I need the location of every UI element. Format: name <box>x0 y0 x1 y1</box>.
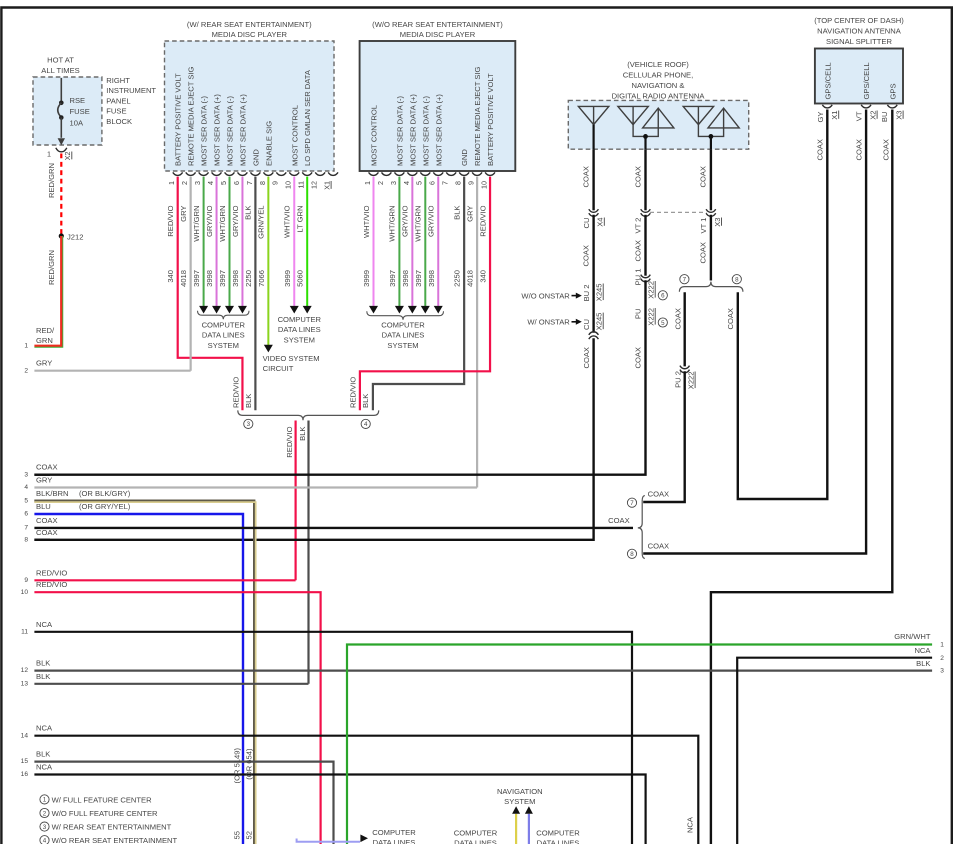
svg-text:(W/ REAR SEAT ENTERTAINMENT): (W/ REAR SEAT ENTERTAINMENT) <box>187 20 312 29</box>
svg-text:COAX: COAX <box>36 528 58 537</box>
svg-text:5060: 5060 <box>296 270 305 287</box>
svg-text:9: 9 <box>24 577 28 584</box>
svg-text:NAVIGATION ANTENNA: NAVIGATION ANTENNA <box>817 26 902 35</box>
svg-text:DIGITAL RADIO ANTENNA: DIGITAL RADIO ANTENNA <box>612 91 706 100</box>
svg-text:(OR BLK/GRY): (OR BLK/GRY) <box>79 489 131 498</box>
brace coax split (7)(8) <box>638 496 645 559</box>
left wire 5 BLK/BRN <box>34 500 40 503</box>
svg-text:X4: X4 <box>596 218 605 227</box>
svg-text:X245: X245 <box>595 284 604 302</box>
coax 3 upper segment <box>710 149 712 210</box>
svg-text:7: 7 <box>630 500 634 507</box>
media disc player (W/ RSE) box <box>165 41 335 171</box>
brace splice options (3)(4) <box>238 410 379 420</box>
option circle 8 coax side <box>627 549 636 558</box>
fuse feed wire <box>60 78 62 102</box>
svg-text:9: 9 <box>467 181 476 185</box>
svg-text:GPS/CELL: GPS/CELL <box>823 62 832 99</box>
option circle 7 antenna side <box>680 275 689 284</box>
wire box2 pin9 GRY joins left wire 4 <box>476 177 478 488</box>
svg-text:MOST SER DATA (-): MOST SER DATA (-) <box>226 95 235 166</box>
svg-text:16: 16 <box>21 771 29 778</box>
svg-text:W/ FULL FEATURE CENTER: W/ FULL FEATURE CENTER <box>52 795 153 804</box>
connector VT 1 X3 <box>706 209 716 212</box>
svg-text:RED/: RED/ <box>36 326 55 335</box>
svg-text:11: 11 <box>297 181 306 188</box>
navigation system wire VIO <box>528 814 530 844</box>
svg-text:6: 6 <box>428 181 437 185</box>
branch 7 coax lower to brace <box>643 371 685 502</box>
svg-text:GRY: GRY <box>465 206 474 222</box>
wires box1 pins 10-11 to computer data lines <box>293 177 295 308</box>
svg-text:MEDIA DISC PLAYER: MEDIA DISC PLAYER <box>212 30 288 39</box>
svg-text:COMPUTER: COMPUTER <box>278 315 322 324</box>
svg-text:RED/VIO: RED/VIO <box>285 426 294 457</box>
antenna 1 stem <box>592 125 594 150</box>
connector PU 2 X222 <box>680 366 690 369</box>
svg-text:W/ ONSTAR: W/ ONSTAR <box>527 317 570 326</box>
legend option 2 <box>40 808 49 817</box>
svg-text:MOST CONTROL: MOST CONTROL <box>290 105 299 166</box>
svg-text:BLK: BLK <box>298 427 307 441</box>
svg-text:BLU: BLU <box>36 502 51 511</box>
svg-text:3: 3 <box>940 667 944 674</box>
svg-text:GRY: GRY <box>179 206 188 222</box>
svg-text:COAX: COAX <box>582 166 591 188</box>
right instrument panel fuse block box <box>33 77 102 145</box>
wire box2 pin10 RED/VIO to splice pair (4) <box>360 177 490 411</box>
left wire 3 COAX <box>34 474 50 476</box>
svg-text:X3: X3 <box>895 111 904 120</box>
svg-text:GRY: GRY <box>36 476 52 485</box>
svg-text:PU 1: PU 1 <box>634 269 643 286</box>
bottom lavender data wire with arrow <box>297 839 360 842</box>
svg-text:10: 10 <box>284 181 293 189</box>
svg-text:1: 1 <box>940 642 944 649</box>
svg-text:COMPUTER: COMPUTER <box>381 321 425 330</box>
svg-text:COAX: COAX <box>726 308 735 330</box>
splitter X2 wire to brace branch 8 <box>643 110 866 554</box>
svg-text:3997: 3997 <box>388 270 397 287</box>
navigation system wire YEL <box>515 814 517 844</box>
svg-text:GRY/VIO: GRY/VIO <box>205 205 214 237</box>
svg-text:52: 52 <box>244 831 253 839</box>
svg-text:6: 6 <box>661 293 665 300</box>
brace computer data lines group 1 <box>198 311 250 320</box>
svg-text:COMPUTER: COMPUTER <box>202 321 246 330</box>
svg-text:4018: 4018 <box>466 270 475 287</box>
option circle 7 coax side <box>627 498 636 507</box>
svg-text:VT: VT <box>855 111 864 121</box>
svg-text:MOST CONTROL: MOST CONTROL <box>370 105 379 166</box>
antenna 2 stem <box>644 136 646 149</box>
svg-text:2: 2 <box>43 810 47 817</box>
svg-text:INSTRUMENT: INSTRUMENT <box>106 86 156 95</box>
svg-text:3997: 3997 <box>414 270 423 287</box>
svg-text:5: 5 <box>219 181 228 185</box>
svg-text:3998: 3998 <box>231 270 240 287</box>
svg-text:MOST SER DATA (+): MOST SER DATA (+) <box>238 94 247 166</box>
media disc player (W/O RSE) box <box>360 41 516 171</box>
svg-text:MOST SER DATA (+): MOST SER DATA (+) <box>213 94 222 166</box>
svg-text:COAX: COAX <box>699 242 708 264</box>
svg-text:2: 2 <box>376 181 385 185</box>
option circle 4 <box>361 419 370 428</box>
svg-text:4: 4 <box>364 421 368 428</box>
brace computer data lines group 3 <box>367 311 444 320</box>
left wire 4 GRY <box>34 486 477 488</box>
right wire 1 GRN/WHT <box>347 645 932 844</box>
svg-text:8: 8 <box>630 551 634 558</box>
coax 2 lower segment joins left wire 3 <box>34 280 645 475</box>
splice J212 <box>59 233 64 238</box>
coax 1 lower segment joins left wire 8 <box>34 338 593 540</box>
svg-text:GRN/WHT: GRN/WHT <box>894 632 931 641</box>
fuse output wire with arrow <box>60 118 62 138</box>
svg-text:14: 14 <box>21 732 29 739</box>
legend option 3 <box>40 822 49 831</box>
svg-text:BU: BU <box>880 112 889 123</box>
left wire 12 BLK <box>34 669 932 671</box>
svg-text:3997: 3997 <box>192 270 201 287</box>
svg-text:RED/VIO: RED/VIO <box>232 377 241 408</box>
svg-text:3997: 3997 <box>218 270 227 287</box>
svg-text:NAVIGATION: NAVIGATION <box>497 787 543 796</box>
svg-text:WHT/GRN: WHT/GRN <box>192 206 201 242</box>
branch 7 coax via PU 2 X222 <box>684 292 686 366</box>
svg-text:(TOP CENTER OF DASH): (TOP CENTER OF DASH) <box>814 16 904 25</box>
svg-text:X222: X222 <box>647 308 656 326</box>
svg-text:4018: 4018 <box>179 270 188 287</box>
svg-text:3999: 3999 <box>362 270 371 287</box>
svg-text:MOST SER DATA (+): MOST SER DATA (+) <box>434 94 443 166</box>
media disc player (W/ RSE) pin connectors <box>173 172 183 175</box>
svg-text:3: 3 <box>24 471 28 478</box>
signal splitter box <box>815 49 903 104</box>
svg-text:X222: X222 <box>687 372 696 390</box>
svg-text:3998: 3998 <box>427 270 436 287</box>
option circle 8 antenna side <box>732 275 741 284</box>
svg-text:4: 4 <box>206 181 215 185</box>
svg-text:10: 10 <box>479 181 488 189</box>
svg-text:7: 7 <box>683 277 687 284</box>
left wire 8 COAX <box>34 539 50 541</box>
svg-text:BLK: BLK <box>361 394 370 408</box>
svg-text:RED/VIO: RED/VIO <box>36 580 67 589</box>
svg-text:7: 7 <box>245 181 254 185</box>
svg-text:11: 11 <box>21 628 28 635</box>
svg-text:BLK: BLK <box>244 206 253 220</box>
wire box1 pin7 BLK to splice pair (3) <box>254 177 256 411</box>
coax 1 upper segment <box>592 149 594 210</box>
antenna 2 junction <box>633 125 658 137</box>
svg-text:BLK: BLK <box>36 750 50 759</box>
svg-text:ALL TIMES: ALL TIMES <box>41 66 79 75</box>
svg-text:WHT/GRN: WHT/GRN <box>414 206 423 242</box>
svg-text:RED/VIO: RED/VIO <box>166 205 175 236</box>
svg-text:3: 3 <box>389 181 398 185</box>
svg-text:GND: GND <box>460 149 469 166</box>
svg-text:RED/VIO: RED/VIO <box>36 568 67 577</box>
svg-text:CIRCUIT: CIRCUIT <box>263 364 294 373</box>
wire box1 pin1 RED/VIO to splice pair (3) <box>178 177 243 411</box>
svg-text:WHT/VIO: WHT/VIO <box>283 205 292 238</box>
wire RED dashed to splice J212 <box>60 154 62 237</box>
svg-text:DATA LINES: DATA LINES <box>202 331 245 340</box>
svg-text:COAX: COAX <box>648 490 670 499</box>
svg-text:COAX: COAX <box>582 347 591 369</box>
svg-text:GRY/VIO: GRY/VIO <box>401 205 410 237</box>
coax 2 middle segment <box>644 215 646 276</box>
svg-text:COAX: COAX <box>633 166 642 188</box>
svg-text:HOT AT: HOT AT <box>47 56 74 65</box>
dashed connector tie line <box>650 211 706 213</box>
svg-text:WHT/VIO: WHT/VIO <box>362 205 371 238</box>
svg-text:VT 1: VT 1 <box>699 218 708 234</box>
svg-text:NAVIGATION &: NAVIGATION & <box>632 81 685 90</box>
merged wire BLK down to left wire 13 <box>307 421 309 684</box>
svg-text:COAX: COAX <box>36 516 58 525</box>
left wire 16 NCA <box>34 775 645 844</box>
svg-text:W/O REAR SEAT ENTERTAINMENT: W/O REAR SEAT ENTERTAINMENT <box>52 836 178 844</box>
legend option 4 <box>40 836 49 844</box>
svg-text:COAX: COAX <box>881 139 890 161</box>
splitter pin connectors <box>822 105 832 108</box>
svg-text:2: 2 <box>24 367 28 374</box>
splitter X3 wire to bottom edge <box>711 110 892 844</box>
svg-text:PU: PU <box>634 309 643 320</box>
svg-text:RED/GRN: RED/GRN <box>47 250 56 285</box>
svg-text:RSE: RSE <box>70 96 86 105</box>
svg-text:RED/VIO: RED/VIO <box>478 205 487 236</box>
svg-text:CU: CU <box>582 319 591 330</box>
svg-text:FUSE: FUSE <box>106 107 126 116</box>
svg-text:COAX: COAX <box>648 541 670 550</box>
svg-text:5: 5 <box>661 320 665 327</box>
svg-text:X1: X1 <box>323 181 332 190</box>
left wire 2 GRY <box>34 370 190 372</box>
svg-text:NCA: NCA <box>36 763 53 772</box>
svg-text:1: 1 <box>363 181 372 185</box>
svg-text:COAX: COAX <box>36 463 58 472</box>
svg-text:RIGHT: RIGHT <box>106 76 130 85</box>
svg-text:BATTERY POSITIVE VOLT: BATTERY POSITIVE VOLT <box>174 73 183 166</box>
connector PU 1 X222 <box>641 275 651 278</box>
svg-text:(OR GRY/YEL): (OR GRY/YEL) <box>79 502 131 511</box>
svg-text:340: 340 <box>166 270 175 283</box>
svg-text:COAX: COAX <box>816 139 825 161</box>
svg-text:13: 13 <box>21 680 29 687</box>
svg-text:2250: 2250 <box>244 270 253 287</box>
svg-text:3: 3 <box>43 824 47 831</box>
svg-text:(OR 5149): (OR 5149) <box>232 748 241 784</box>
svg-text:NCA: NCA <box>36 620 53 629</box>
svg-text:SIGNAL SPLITTER: SIGNAL SPLITTER <box>826 37 892 46</box>
svg-text:VT 2: VT 2 <box>634 218 643 234</box>
left wire 5 BLK/BRN tan body <box>34 501 254 844</box>
wire box2 pin8 BLK to splice pair (4) <box>373 177 464 411</box>
svg-text:8: 8 <box>735 277 739 284</box>
svg-text:GPS/CELL: GPS/CELL <box>862 62 871 99</box>
svg-text:X1: X1 <box>830 111 839 120</box>
svg-text:PU 2: PU 2 <box>673 371 682 388</box>
svg-text:COMPUTER: COMPUTER <box>454 829 498 838</box>
svg-text:3998: 3998 <box>205 270 214 287</box>
antenna 3 junction <box>698 125 723 137</box>
svg-text:DATA LINES: DATA LINES <box>382 331 425 340</box>
svg-text:3998: 3998 <box>401 270 410 287</box>
svg-text:MOST SER DATA (-): MOST SER DATA (-) <box>421 95 430 166</box>
svg-text:BATTERY POSITIVE VOLT: BATTERY POSITIVE VOLT <box>486 73 495 166</box>
svg-text:1: 1 <box>47 150 51 159</box>
svg-text:3999: 3999 <box>283 270 292 287</box>
svg-text:BLK: BLK <box>36 672 50 681</box>
left wire 15 BLK <box>34 762 333 844</box>
left wire 14 NCA <box>34 736 698 844</box>
svg-text:(W/O REAR SEAT ENTERTAINMENT): (W/O REAR SEAT ENTERTAINMENT) <box>372 20 503 29</box>
svg-text:W/ REAR SEAT ENTERTAINMENT: W/ REAR SEAT ENTERTAINMENT <box>52 823 172 832</box>
svg-text:9: 9 <box>271 181 280 185</box>
connector X4 <box>589 209 599 212</box>
svg-text:(OR 654): (OR 654) <box>244 748 253 780</box>
svg-text:MOST SER DATA (-): MOST SER DATA (-) <box>200 95 209 166</box>
svg-text:10: 10 <box>21 589 29 596</box>
svg-text:7066: 7066 <box>257 270 266 287</box>
svg-text:BLK: BLK <box>36 659 50 668</box>
svg-text:X245: X245 <box>595 313 604 331</box>
svg-text:COAX: COAX <box>673 308 682 330</box>
svg-text:6: 6 <box>232 181 241 185</box>
svg-text:5: 5 <box>415 181 424 185</box>
svg-text:BU 2: BU 2 <box>582 285 591 302</box>
svg-text:COAX: COAX <box>855 139 864 161</box>
svg-text:8: 8 <box>258 181 267 185</box>
svg-text:SYSTEM: SYSTEM <box>284 335 315 344</box>
svg-text:GPS: GPS <box>888 83 897 99</box>
option circle 5 <box>658 318 667 327</box>
connector X245 <box>589 332 599 335</box>
antenna 2 symbol <box>618 106 648 124</box>
connector X2 below fuse block <box>56 148 67 152</box>
svg-text:VIDEO SYSTEM: VIDEO SYSTEM <box>263 354 320 363</box>
svg-text:2250: 2250 <box>453 270 462 287</box>
svg-text:W/O FULL FEATURE CENTER: W/O FULL FEATURE CENTER <box>52 809 158 818</box>
antenna 3 stem <box>710 136 712 149</box>
svg-text:GRN: GRN <box>36 336 53 345</box>
wires box1 pins 3-6 to computer data lines <box>203 177 205 308</box>
svg-text:7: 7 <box>441 181 450 185</box>
svg-text:ENABLE SIG: ENABLE SIG <box>264 121 273 166</box>
svg-text:4: 4 <box>24 484 28 491</box>
svg-text:COAX: COAX <box>582 245 591 267</box>
svg-text:GRY/VIO: GRY/VIO <box>231 205 240 237</box>
svg-text:CELLULAR PHONE,: CELLULAR PHONE, <box>623 70 693 79</box>
svg-text:12: 12 <box>21 667 29 674</box>
antenna 3 symbol <box>683 106 713 124</box>
svg-text:10A: 10A <box>70 119 84 128</box>
svg-text:3: 3 <box>247 421 251 428</box>
left wire 9 RED/VIO <box>34 579 295 581</box>
svg-text:PANEL: PANEL <box>106 96 130 105</box>
svg-text:NCA: NCA <box>36 724 53 733</box>
svg-text:NCA: NCA <box>685 816 694 833</box>
antenna box <box>568 100 748 149</box>
svg-text:55: 55 <box>232 831 241 839</box>
svg-text:BLOCK: BLOCK <box>106 117 132 126</box>
left wire 10 RED/VIO <box>34 592 320 844</box>
svg-text:RED/GRN: RED/GRN <box>47 163 56 198</box>
svg-text:WHT/GRN: WHT/GRN <box>388 206 397 242</box>
coax 1 middle segment <box>592 215 594 333</box>
svg-text:8: 8 <box>24 536 28 543</box>
svg-text:7: 7 <box>24 525 28 532</box>
coax 3 lower segment <box>710 215 712 281</box>
svg-text:1: 1 <box>24 342 28 349</box>
svg-text:RED/VIO: RED/VIO <box>349 377 358 408</box>
svg-text:4: 4 <box>402 181 411 185</box>
svg-text:6: 6 <box>24 511 28 518</box>
svg-text:REMOTE MEDIA EJECT SIG: REMOTE MEDIA EJECT SIG <box>187 66 196 166</box>
svg-text:GRY/VIO: GRY/VIO <box>427 205 436 237</box>
svg-text:1: 1 <box>167 181 176 185</box>
svg-text:CU: CU <box>582 218 591 229</box>
svg-text:NCA: NCA <box>914 646 931 655</box>
svg-text:W/O ONSTAR: W/O ONSTAR <box>521 292 570 301</box>
svg-text:MOST SER DATA (-): MOST SER DATA (-) <box>395 95 404 166</box>
svg-text:SYSTEM: SYSTEM <box>504 797 535 806</box>
coax 2 upper segment <box>644 149 646 210</box>
svg-text:COAX: COAX <box>699 166 708 188</box>
svg-text:BLK: BLK <box>916 659 930 668</box>
svg-text:REMOTE MEDIA EJECT SIG: REMOTE MEDIA EJECT SIG <box>473 66 482 166</box>
svg-text:340: 340 <box>479 270 488 283</box>
svg-text:LT GRN: LT GRN <box>296 206 305 233</box>
svg-text:COMPUTER: COMPUTER <box>372 828 416 837</box>
svg-text:SYSTEM: SYSTEM <box>387 341 418 350</box>
svg-text:GRY: GRY <box>36 359 52 368</box>
left wire 13 BLK <box>34 683 308 685</box>
left wire 7 COAX <box>34 527 633 529</box>
media disc player (W/O RSE) pin connectors <box>369 172 379 175</box>
svg-text:COMPUTER: COMPUTER <box>536 829 580 838</box>
wire box1 pin8 GRN/YEL to video system circuit <box>267 177 269 346</box>
svg-text:(VEHICLE ROOF): (VEHICLE ROOF) <box>627 60 689 69</box>
svg-text:X222: X222 <box>647 281 656 299</box>
svg-text:X3: X3 <box>713 218 722 227</box>
svg-text:BLK: BLK <box>244 394 253 408</box>
svg-text:5: 5 <box>24 498 28 505</box>
legend option 1 <box>40 795 49 804</box>
svg-text:J212: J212 <box>67 233 83 242</box>
svg-text:LO SPD GMLAN SER DATA: LO SPD GMLAN SER DATA <box>303 69 312 166</box>
svg-text:1: 1 <box>43 797 47 804</box>
svg-text:COAX: COAX <box>633 240 642 262</box>
svg-text:GRN/YEL: GRN/YEL <box>257 206 266 239</box>
svg-text:SYSTEM: SYSTEM <box>208 341 239 350</box>
svg-text:DATA LINES: DATA LINES <box>454 839 497 844</box>
svg-text:MOST SER DATA (+): MOST SER DATA (+) <box>408 94 417 166</box>
svg-text:GY: GY <box>816 112 825 123</box>
svg-text:COAX: COAX <box>634 347 643 369</box>
svg-text:3: 3 <box>193 181 202 185</box>
right wire 2 NCA <box>737 658 932 844</box>
wire 1 RED/GRN to left edge <box>34 236 62 347</box>
svg-text:4: 4 <box>43 838 47 844</box>
svg-text:FUSE: FUSE <box>70 107 90 116</box>
svg-text:12: 12 <box>310 181 319 189</box>
option circle 3 <box>244 419 253 428</box>
brace antenna split (7)(8) <box>679 282 743 292</box>
